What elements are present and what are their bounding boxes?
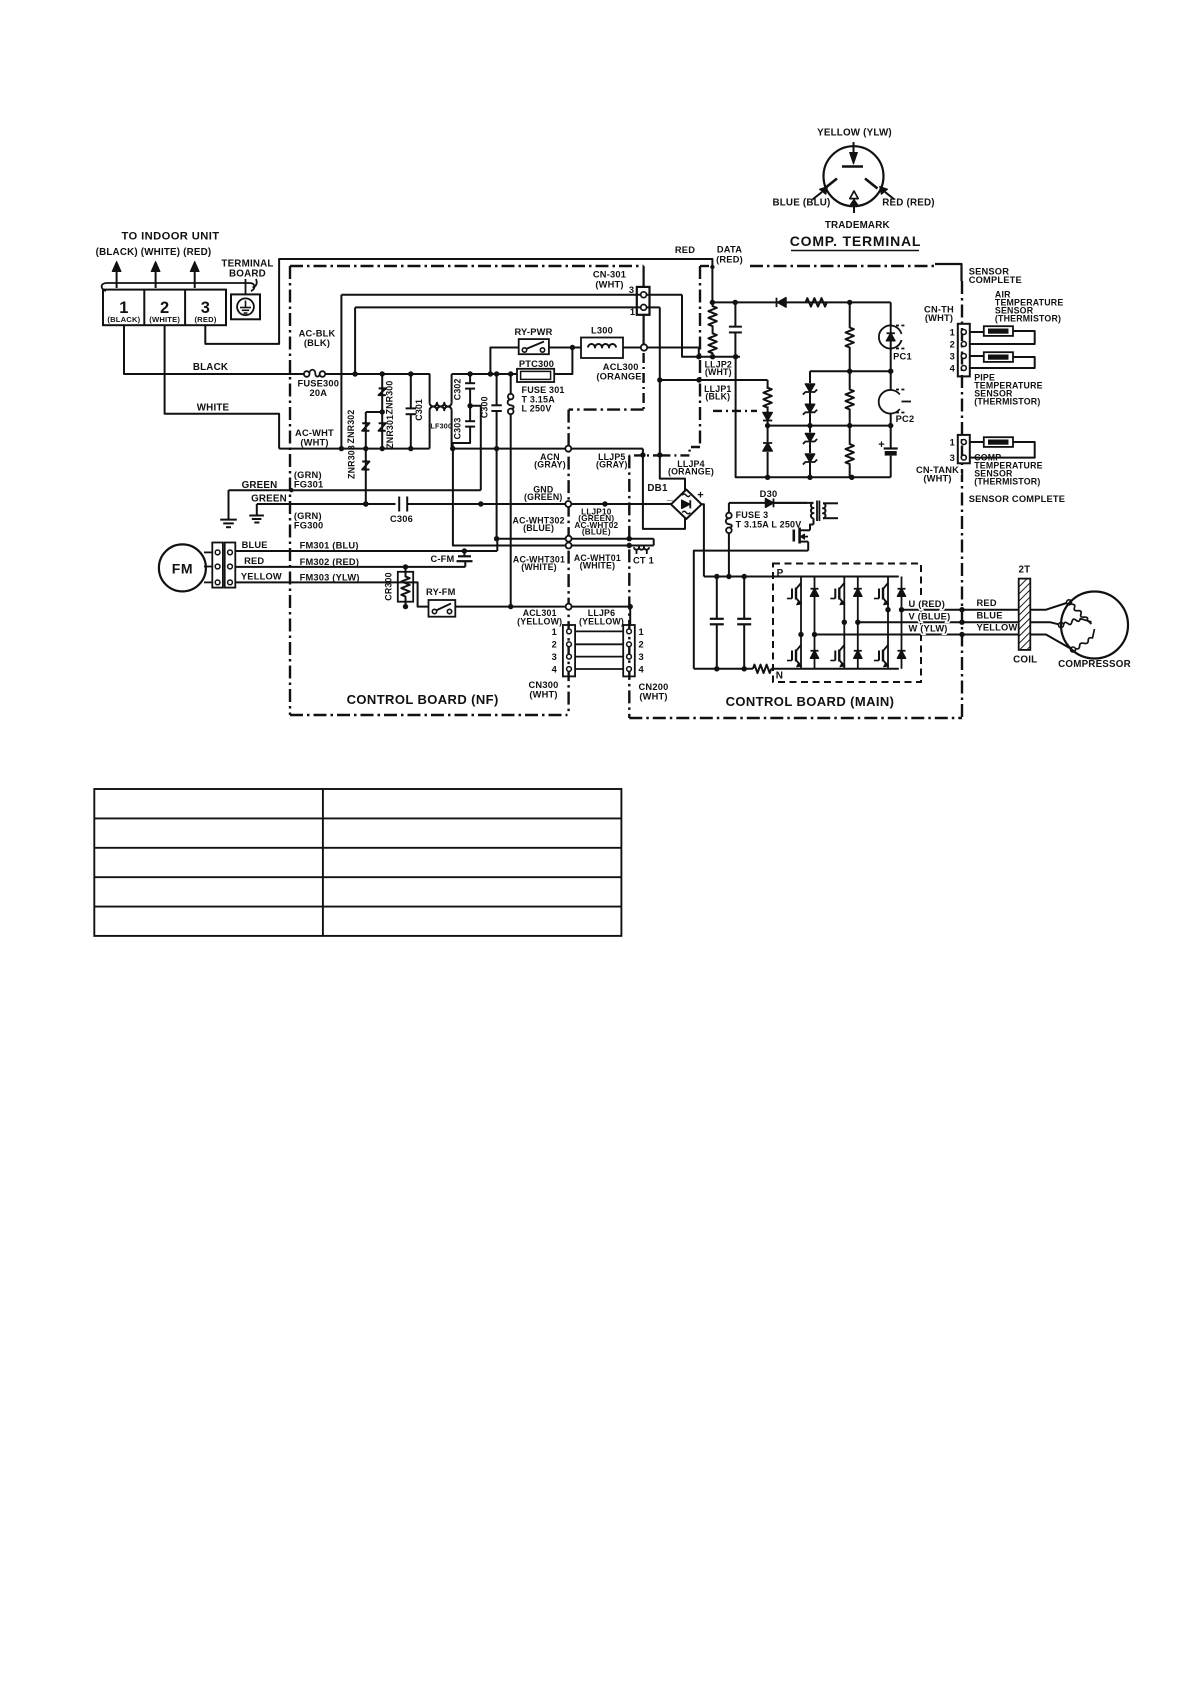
svg-text:DATA: DATA (717, 245, 742, 255)
node LLJP10 boundary circle (565, 501, 571, 507)
resistor on N rail (753, 665, 771, 673)
svg-text:(ORANGE): (ORANGE) (596, 372, 645, 382)
svg-text:CONTROL BOARD (MAIN): CONTROL BOARD (MAIN) (726, 694, 895, 709)
wire coil to compressor red (1030, 603, 1066, 610)
node ACL300 connector (641, 344, 647, 350)
svg-text:ZNR300: ZNR300 (385, 381, 395, 415)
svg-text:1: 1 (639, 627, 644, 637)
mosfet Q switching (813, 518, 815, 524)
wire P rail (704, 576, 899, 578)
wire FG301 rail (229, 489, 481, 491)
svg-text:COMP. TERMINAL: COMP. TERMINAL (790, 233, 922, 249)
svg-text:(THERMISTOR): (THERMISTOR) (995, 314, 1061, 324)
svg-text:TO INDOOR UNIT: TO INDOOR UNIT (121, 231, 219, 243)
svg-text:D30: D30 (760, 489, 778, 499)
fuse FUSE300 (304, 371, 310, 377)
svg-text:(ORANGE): (ORANGE) (668, 466, 714, 476)
capacitor at 735 (734, 302, 736, 326)
svg-text:CR300: CR300 (384, 572, 394, 600)
main board inner boundary jog (713, 410, 757, 412)
bridge rectifier DB1 (671, 490, 702, 520)
svg-text:(GRAY): (GRAY) (534, 459, 566, 469)
ground FG300 (256, 504, 258, 516)
resistor on top rail (806, 298, 827, 306)
transformer T (774, 502, 814, 504)
red terminal bar (865, 179, 878, 189)
wire CN-301 to ACL300 node (642, 315, 644, 348)
svg-text:2: 2 (552, 640, 557, 650)
igbt low side 3 (887, 610, 889, 645)
svg-text:(WHT): (WHT) (529, 690, 557, 700)
current transformer CT 1 (653, 539, 655, 546)
svg-text:(WHITE): (WHITE) (521, 562, 557, 572)
svg-text:(WHITE): (WHITE) (149, 315, 180, 324)
wire ACL300 to LLJP2 (623, 347, 699, 349)
phase node 3 (885, 607, 890, 612)
connector CN300 (563, 625, 575, 676)
junction dots on GND rail (363, 501, 368, 506)
diode below at 767 (767, 426, 769, 442)
wire LLJP2 rail (696, 354, 701, 359)
svg-text:CN300: CN300 (529, 680, 559, 690)
svg-text:C306: C306 (390, 514, 413, 524)
ground FG301 (228, 490, 230, 519)
svg-text:PC2: PC2 (896, 414, 915, 424)
terminal board block 1 2 3 (103, 290, 226, 326)
comp terminal circle (824, 146, 884, 206)
svg-text:V (BLUE): V (BLUE) (909, 611, 951, 621)
svg-text:PC1: PC1 (893, 352, 912, 362)
inductor LF300 bottom winding (429, 410, 431, 448)
svg-text:(GRAY): (GRAY) (596, 459, 628, 469)
control board MAIN boundary left (628, 455, 630, 718)
terminal arrow (116, 271, 118, 288)
svg-text:RY-PWR: RY-PWR (514, 327, 552, 337)
svg-text:T 3.15A L 250V: T 3.15A L 250V (736, 520, 802, 530)
jumper wire LLJP6 pin 2 (575, 643, 623, 645)
wire AC-WHT302 blue rail (497, 538, 653, 540)
wire DB1 plus output (702, 504, 704, 576)
thermistor comp sensor (970, 441, 984, 443)
inverter module box (773, 564, 921, 683)
svg-text:YELLOW: YELLOW (977, 623, 1018, 633)
yellow terminal arrow (853, 142, 855, 153)
svg-text:BLACK: BLACK (193, 362, 228, 373)
wire FM301 blue (235, 550, 497, 552)
flyback diode high 2 (857, 577, 859, 589)
svg-text:(WHITE): (WHITE) (580, 560, 616, 570)
electrolytic capacitor (890, 426, 892, 448)
svg-text:3: 3 (629, 285, 634, 295)
svg-text:2T: 2T (1018, 565, 1030, 576)
svg-text:(BLK): (BLK) (705, 391, 730, 401)
svg-text:U (RED): U (RED) (909, 599, 946, 609)
svg-text:1: 1 (950, 328, 955, 338)
svg-text:WHITE: WHITE (197, 403, 230, 414)
NF boundary step horizontal (569, 408, 644, 410)
wire black from terminal 1 (124, 325, 306, 374)
wire long drop to sensing bottom (736, 357, 891, 478)
zener column at 810 (809, 371, 811, 383)
svg-text:COMPLETE: COMPLETE (969, 275, 1022, 285)
wire CN-301 drop from boundary (642, 266, 644, 287)
thermistor pipe sensor (970, 355, 984, 357)
svg-text:BOARD: BOARD (229, 269, 266, 280)
control board MAIN boundary top (750, 265, 935, 267)
wire FG300 GND rail (257, 503, 396, 505)
svg-text:ZNR301: ZNR301 (385, 415, 395, 449)
svg-text:4: 4 (639, 664, 645, 674)
svg-text:W (YLW): W (YLW) (909, 624, 948, 634)
wire CN-301 pin3 to white rail (341, 294, 682, 296)
igbt low side 1 (800, 635, 802, 646)
svg-text:YELLOW (YLW): YELLOW (YLW) (817, 128, 892, 139)
svg-text:_: _ (666, 490, 674, 502)
wire varistor mid branch (366, 411, 382, 413)
varistor ZNR300 (381, 374, 383, 449)
control board MAIN boundary bottom (629, 717, 962, 719)
wire Y-cap midpoint to FG301 (470, 406, 481, 490)
capacitor C300 (496, 374, 498, 405)
terminal arrow (155, 271, 157, 288)
svg-text:RED: RED (244, 556, 264, 566)
igbt high side 1 (800, 577, 802, 584)
svg-text:(GREEN): (GREEN) (524, 492, 563, 502)
resistor column at 849 (849, 302, 851, 327)
svg-text:CN-301: CN-301 (593, 270, 626, 280)
boundary segment to main board left (629, 454, 662, 456)
svg-text:L 250V: L 250V (522, 404, 552, 414)
svg-text:P: P (777, 568, 784, 579)
svg-text:2: 2 (639, 640, 644, 650)
blue terminal bar (825, 179, 838, 189)
control board NF boundary left (289, 266, 291, 715)
svg-text:FG301: FG301 (294, 479, 323, 489)
wire to relay RY-PWR (490, 348, 518, 375)
svg-text:2: 2 (950, 340, 955, 350)
wire phase U (902, 609, 1019, 611)
svg-text:1: 1 (950, 438, 955, 448)
svg-text:3: 3 (950, 352, 955, 362)
svg-text:RY-FM: RY-FM (426, 587, 456, 597)
table grid (94, 789, 621, 936)
thermistor PTC300 (517, 369, 554, 382)
svg-text:TRADEMARK: TRADEMARK (825, 220, 890, 231)
svg-text:PTC300: PTC300 (519, 359, 554, 369)
capacitor C301 (410, 374, 412, 408)
wire CN-301 pin1 down to DB1 (660, 307, 685, 490)
svg-text:ZNR303: ZNR303 (347, 445, 357, 479)
fuse FUSE 301 (510, 374, 512, 394)
svg-text:(WHT): (WHT) (705, 367, 732, 377)
svg-text:FUSE 3: FUSE 3 (736, 510, 769, 520)
svg-text:+: + (878, 439, 885, 451)
diode on top rail (776, 298, 778, 307)
svg-text:COMPRESSOR: COMPRESSOR (1058, 659, 1131, 670)
wire mosfet source to N rail (694, 551, 808, 669)
svg-text:4: 4 (552, 664, 558, 674)
wire coil to compressor yellow (1030, 635, 1070, 649)
trademark triangle (850, 191, 858, 199)
svg-text:(WHT): (WHT) (925, 313, 953, 323)
svg-text:DB1: DB1 (647, 483, 668, 494)
wire PTC output up (554, 348, 572, 375)
svg-text:(BLACK): (BLACK) (107, 315, 140, 324)
tilde marks (682, 494, 690, 497)
svg-text:3: 3 (552, 652, 557, 662)
svg-text:RED: RED (977, 598, 997, 608)
connector CN200 (623, 625, 635, 676)
svg-text:ZNR302: ZNR302 (346, 410, 356, 444)
igbt high side 3 (887, 577, 889, 584)
svg-text:BLUE: BLUE (242, 540, 268, 550)
control board NF boundary top (290, 265, 644, 267)
FM connector (212, 543, 223, 588)
capacitor C306 (398, 497, 400, 512)
control board MAIN boundary jog at LLJP4 (662, 447, 700, 455)
capacitor main filter 2 (743, 577, 745, 619)
svg-text:RED (RED): RED (RED) (882, 198, 934, 209)
svg-text:SENSOR COMPLETE: SENSOR COMPLETE (969, 494, 1065, 504)
svg-text:BLUE (BLU): BLUE (BLU) (772, 198, 830, 209)
igbt low side 2 (843, 622, 845, 645)
varistor ZNR301 (379, 422, 386, 433)
svg-text:3: 3 (639, 652, 644, 662)
terminal board riser wire (245, 279, 247, 294)
wire white rail (279, 448, 430, 450)
wire sensing mid rail 425 (768, 425, 891, 427)
svg-text:N: N (776, 671, 783, 682)
control board NF boundary bottom (290, 714, 568, 716)
svg-text:AC-BLK: AC-BLK (299, 329, 336, 339)
red terminal arrow (885, 192, 895, 200)
svg-text:L300: L300 (591, 326, 613, 336)
capacitor C-FM (463, 551, 465, 556)
resistors at LLJP2 column (708, 302, 716, 330)
wire red from terminal 3 to DATA (205, 259, 712, 344)
svg-text:LF300: LF300 (430, 422, 452, 431)
wire white from terminal 2 (165, 325, 280, 448)
wire sensing mid rail 371 (810, 370, 891, 372)
svg-text:+: + (697, 490, 704, 502)
svg-text:FM: FM (172, 561, 193, 577)
jumper wire LLJP6 pin 1 (575, 630, 623, 632)
trademark arrow (853, 205, 855, 213)
flyback diode low 2 (857, 622, 859, 650)
svg-text:ACL300: ACL300 (603, 362, 639, 372)
wire FM303 yellow (235, 582, 428, 606)
resistor diode column at 767 (767, 380, 769, 389)
inductor LF300 top winding (429, 374, 431, 403)
diode D30 (729, 502, 766, 504)
flyback diode high 3 (901, 577, 903, 589)
svg-text:3: 3 (950, 453, 955, 463)
capacitor C303 (469, 406, 471, 421)
yellow terminal bar (842, 165, 863, 168)
svg-text:CT 1: CT 1 (633, 556, 654, 566)
motor FM (159, 544, 206, 591)
wire FM302 red (235, 566, 465, 568)
varistor ZNR303 (362, 460, 369, 471)
relay RY-PWR (519, 339, 549, 354)
svg-text:(WHT): (WHT) (923, 474, 951, 484)
svg-text:FM301 (BLU): FM301 (BLU) (300, 540, 359, 550)
blue terminal arrow (813, 192, 823, 200)
sensor complete corner bracket (935, 264, 962, 281)
varistor ZNR302 (365, 412, 367, 504)
flyback diode low 3 (901, 610, 903, 650)
control board MAIN boundary right (961, 281, 963, 718)
svg-text:(THERMISTOR): (THERMISTOR) (974, 477, 1040, 487)
svg-text:(YELLOW): (YELLOW) (579, 617, 624, 627)
svg-text:(WHT): (WHT) (300, 438, 328, 448)
thermistor air sensor (970, 331, 984, 333)
wire ACN to DB1 bottom input (643, 449, 685, 529)
svg-text:YELLOW: YELLOW (241, 572, 282, 582)
wire ACL301 yellow rail (455, 606, 630, 608)
connector CN-TANK (958, 435, 970, 463)
capacitor C302 (469, 374, 471, 383)
inductor L300 (581, 338, 623, 359)
svg-text:BLUE: BLUE (977, 610, 1003, 620)
resistor CR300 (398, 572, 413, 602)
node LLJP5 junction (640, 452, 645, 457)
photocoupler PC2 (879, 390, 900, 414)
svg-text:20A: 20A (309, 388, 327, 398)
wire sensing top rail (712, 301, 890, 303)
terminal board ground symbol (231, 294, 260, 319)
igbt high side 2 (843, 577, 845, 584)
relay RY-FM (429, 600, 456, 617)
jumper wire LLJP6 pin 4 (575, 668, 623, 670)
NF boundary right edge through CN-301 (642, 353, 644, 410)
zener column lower at 810 (809, 426, 811, 433)
flyback diode high 1 (814, 577, 816, 589)
svg-text:(BLACK) (WHITE) (RED): (BLACK) (WHITE) (RED) (96, 247, 212, 258)
node ACN boundary circle (565, 446, 571, 452)
wire N rail (694, 668, 753, 670)
svg-text:FG300: FG300 (294, 520, 323, 530)
wire CN-301 pin1 to black rail (355, 306, 660, 308)
wire CN-301 pin3 to LLJP2 (682, 295, 740, 357)
motor COMPRESSOR (1061, 592, 1128, 659)
svg-text:FM303 (YLW): FM303 (YLW) (300, 572, 360, 582)
svg-text:AC-WHT: AC-WHT (295, 428, 334, 438)
svg-text:1: 1 (552, 627, 557, 637)
svg-text:1: 1 (630, 307, 635, 317)
svg-text:CN200: CN200 (639, 682, 669, 692)
capacitor main filter 1 (716, 577, 718, 619)
svg-text:(RED): (RED) (194, 315, 216, 324)
svg-text:(BLK): (BLK) (304, 338, 330, 348)
control board NF boundary right lower (567, 410, 569, 715)
svg-text:C302: C302 (452, 378, 462, 400)
svg-text:(WHT): (WHT) (639, 692, 667, 702)
svg-text:GREEN: GREEN (251, 494, 287, 505)
svg-text:(GRN): (GRN) (294, 511, 322, 521)
svg-text:(BLUE): (BLUE) (523, 523, 554, 533)
svg-text:C-FM: C-FM (430, 554, 454, 564)
svg-text:RED: RED (675, 245, 695, 255)
fuse FUSE 3 (728, 503, 730, 513)
svg-text:C303: C303 (452, 418, 462, 440)
svg-text:FM302 (RED): FM302 (RED) (300, 557, 360, 567)
svg-text:(RED): (RED) (716, 255, 743, 265)
svg-text:(THERMISTOR): (THERMISTOR) (974, 397, 1040, 407)
wire black rail (325, 373, 430, 375)
wire coil to compressor blue (1030, 622, 1058, 624)
jumper wire LLJP6 pin 3 (575, 656, 623, 658)
wire AC-WHT301 white rail (453, 449, 654, 546)
compressor windings (1071, 604, 1091, 624)
svg-text:C301: C301 (414, 399, 424, 421)
wire LLJP1 rail (660, 379, 768, 381)
svg-text:CONTROL BOARD (NF): CONTROL BOARD (NF) (347, 692, 499, 707)
cable bundle line (102, 283, 255, 291)
svg-text:(WHT): (WHT) (595, 280, 623, 290)
svg-text:(BLUE): (BLUE) (582, 528, 611, 537)
junction DATA wire (710, 265, 714, 269)
wire phase W (815, 634, 1019, 636)
photocoupler PC1 (890, 302, 892, 326)
terminal arrow (194, 271, 196, 288)
connector CN-TH (958, 324, 970, 377)
wire phase V (858, 621, 1019, 623)
svg-text:C300: C300 (479, 396, 489, 418)
phase node 2 (842, 620, 847, 625)
control board MAIN boundary left upper (699, 266, 701, 447)
svg-text:(YELLOW): (YELLOW) (517, 617, 562, 627)
flyback diode low 1 (814, 635, 816, 651)
svg-text:4: 4 (950, 364, 956, 374)
svg-text:COIL: COIL (1013, 655, 1037, 666)
wire relay to L300 (549, 347, 581, 349)
phase node 1 (798, 632, 803, 637)
connector CN-301 (637, 287, 650, 315)
